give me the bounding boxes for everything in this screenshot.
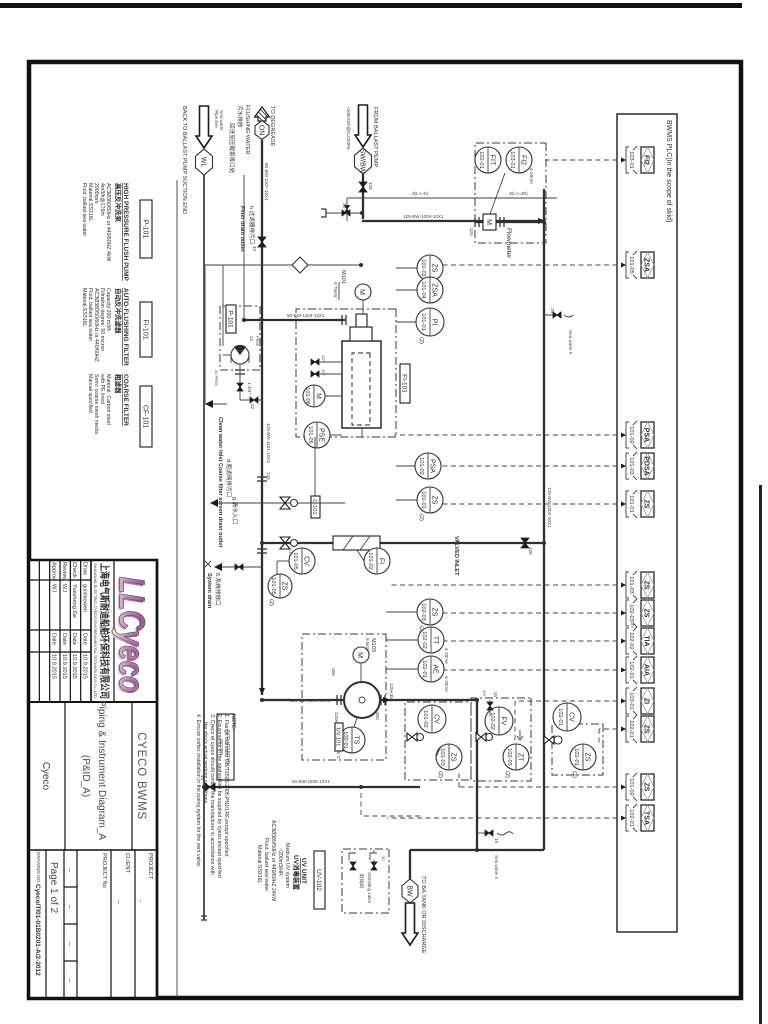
svg-text:g.清水入口: g.清水入口 xyxy=(231,497,239,524)
svg-text:(P&ID_A): (P&ID_A) xyxy=(80,755,91,797)
svg-text:–: – xyxy=(66,905,73,909)
svg-text:Material:SS316L: Material:SS316L xyxy=(256,845,262,883)
svg-text:25: 25 xyxy=(550,308,555,314)
svg-text:0.75kW: 0.75kW xyxy=(333,282,338,298)
instrument CV 101-02 xyxy=(418,705,446,733)
svg-text:M101: M101 xyxy=(340,270,346,284)
instrument ZS 102-03 xyxy=(417,599,443,625)
svg-text:CV: CV xyxy=(433,714,440,724)
tag P-101 xyxy=(226,305,236,333)
svg-text:102-01: 102-01 xyxy=(478,151,484,168)
svg-text:WJ: WJ xyxy=(61,584,67,592)
svg-text:Manual specified: Manual specified xyxy=(87,374,93,413)
instrument ZS 102-01 xyxy=(570,744,596,770)
svg-text:Check: Check xyxy=(71,562,77,578)
second header y=290 xyxy=(476,700,478,850)
valved inlet line x=543 xyxy=(262,542,544,544)
svg-text:102-01: 102-01 xyxy=(557,708,563,725)
svg-text:(2): (2) xyxy=(571,771,577,778)
svg-text:ZI: ZI xyxy=(643,698,650,704)
sample dashed L xyxy=(360,793,362,816)
hexagon WL xyxy=(196,149,213,175)
main discharge header y=223 xyxy=(543,189,545,850)
signal ZI 103-01 xyxy=(515,700,626,702)
svg-text:80-BW-1107-10X1: 80-BW-1107-10X1 xyxy=(264,163,269,201)
tag FI-101 xyxy=(400,364,410,403)
PLC point ZS 101-03 xyxy=(626,571,654,599)
valve 125 inlet xyxy=(359,182,367,192)
svg-text:10.9.2015: 10.9.2015 xyxy=(71,654,77,679)
scan edge artifact right xyxy=(759,485,762,1024)
pump discharge w/ check valve xyxy=(239,364,241,400)
svg-text:125: 125 xyxy=(469,228,474,236)
svg-text:BW: BW xyxy=(406,885,413,897)
svg-text:6.系统排放口: 6.系统排放口 xyxy=(214,573,222,606)
svg-text:(2): (2) xyxy=(268,599,274,606)
svg-text:ZS: ZS xyxy=(431,496,438,505)
signal FI2 xyxy=(545,159,626,161)
PLC point PDSA 101-03 xyxy=(626,452,654,480)
signal ZSA xyxy=(443,264,626,266)
svg-text:3(L>=30): 3(L>=30) xyxy=(509,191,528,196)
svg-text:101-01: 101-01 xyxy=(628,495,634,512)
svg-text:UV: UV xyxy=(630,622,635,629)
svg-text:–: – xyxy=(66,868,73,872)
svg-text:Date: Date xyxy=(71,633,77,645)
svg-text:101-04: 101-04 xyxy=(420,281,426,298)
flowmeter M box on riser xyxy=(475,221,544,223)
P-101 dash-dot box xyxy=(220,306,260,370)
svg-text:WJ: WJ xyxy=(51,584,57,592)
svg-text:Cyeco: Cyeco xyxy=(40,762,51,791)
signal PDSA xyxy=(441,465,626,467)
sampling valves xyxy=(371,862,377,870)
svg-text:101-02: 101-02 xyxy=(628,778,634,795)
svg-text:Date: Date xyxy=(82,633,88,645)
instrument PSA 101-02 xyxy=(415,453,441,479)
svg-text:22: 22 xyxy=(249,336,254,342)
svg-text:1/2": 1/2" xyxy=(321,355,326,363)
instrument ZSA 101-04 xyxy=(417,277,443,303)
svg-text:PROJECT: PROJECT xyxy=(147,853,153,880)
inline mixer xyxy=(333,536,380,550)
svg-text:Medium UV system: Medium UV system xyxy=(284,843,290,888)
svg-text:ZS: ZS xyxy=(643,783,650,792)
svg-text:PSE: PSE xyxy=(318,428,325,442)
sample line x=198 xyxy=(346,198,348,221)
flushing line arrow into riser xyxy=(259,688,265,695)
svg-text:40 PR05: 40 PR05 xyxy=(214,370,219,386)
PLC point TSA 102-01 xyxy=(626,804,654,832)
svg-text:TT: TT xyxy=(432,636,439,645)
svg-text:350: 350 xyxy=(375,712,380,720)
svg-text:Cyeco/TI01-01B0201-A/2-2012: Cyeco/TI01-01B0201-A/2-2012 xyxy=(34,884,41,976)
svg-text:FI2: FI2 xyxy=(520,155,527,165)
svg-text:102-02: 102-02 xyxy=(421,631,427,648)
scan edge artifact top xyxy=(0,3,742,8)
PLC point ZI 103-01 xyxy=(626,687,654,715)
svg-text:System drain: System drain xyxy=(206,573,212,609)
svg-text:101-06: 101-06 xyxy=(304,387,310,404)
svg-text:101-05: 101-05 xyxy=(307,426,313,443)
svg-text:PR05: PR05 xyxy=(255,336,260,347)
svg-text:3. Cyeco et cyeco should cons: 3. Cyeco et cyeco should consult the man… xyxy=(209,714,215,875)
svg-text:4-20mA: 4-20mA xyxy=(444,648,449,665)
svg-text:污水排放: 污水排放 xyxy=(236,105,244,128)
flushing water line y=505 xyxy=(261,140,263,695)
tag C-101 xyxy=(311,496,320,518)
svg-text:101-05: 101-05 xyxy=(292,552,298,569)
tag P-101 margin xyxy=(140,200,152,258)
instrument CV 102-01 xyxy=(553,703,581,731)
svg-text:CF-101: CF-101 xyxy=(142,405,149,428)
svg-text:103-01: 103-01 xyxy=(509,151,515,168)
svg-text:125-BW-1004-10X1: 125-BW-1004-10X1 xyxy=(547,487,552,528)
svg-text:HIGH PRESSURE FLUSH PUMP: HIGH PRESSURE FLUSH PUMP xyxy=(122,183,129,282)
svg-text:102-01: 102-01 xyxy=(628,809,634,826)
svg-text:ZSA: ZSA xyxy=(431,283,438,297)
svg-text:the ship's actual working cond: the ship's actual working conditions xyxy=(202,722,208,804)
svg-text:FI-101: FI-101 xyxy=(142,319,149,339)
svg-text:CV: CV xyxy=(568,712,575,722)
stub lines from instruments down xyxy=(396,321,416,323)
P-101 pump xyxy=(231,346,249,364)
PLC point ZS 101-01 xyxy=(626,490,654,518)
svg-text:PI: PI xyxy=(431,319,438,326)
svg-text:125: 125 xyxy=(528,547,533,555)
motor M101 xyxy=(355,284,371,300)
svg-text:1/2": 1/2" xyxy=(482,690,487,698)
svg-text:COARSE FILTER: COARSE FILTER xyxy=(122,374,129,426)
svg-text:Clean water inlet Coarse filte: Clean water inlet Coarse filter screen d… xyxy=(217,417,223,547)
svg-text:Sea water k: Sea water k xyxy=(568,330,573,355)
svg-text:PDSA: PDSA xyxy=(643,456,650,475)
CV 101-02 group dash-dot box xyxy=(405,702,471,780)
svg-text:40: 40 xyxy=(252,246,257,252)
svg-text:CLIENT: CLIENT xyxy=(124,853,130,873)
svg-text:ZS: ZS xyxy=(584,753,591,762)
svg-text:NOTE:: NOTE: xyxy=(230,714,236,730)
svg-text:5.5kW: 5.5kW xyxy=(365,638,370,652)
svg-text:FLUSHING WATER: FLUSHING WATER xyxy=(244,105,250,154)
vessel inlet from riser top xyxy=(361,428,363,437)
svg-text:CV: CV xyxy=(303,556,310,566)
svg-text:高压反冲洗泵: 高压反冲洗泵 xyxy=(114,183,123,223)
svg-text:P-101: P-101 xyxy=(142,220,149,239)
drain branch x=213 xyxy=(326,212,362,214)
svg-text:4-20mA: 4-20mA xyxy=(444,676,449,693)
svg-text:101-02: 101-02 xyxy=(367,552,373,569)
svg-text:Yuesheng.Ge: Yuesheng.Ge xyxy=(71,584,77,618)
svg-text:ZT: ZT xyxy=(517,753,524,762)
vent off header y=290 xyxy=(477,832,493,834)
svg-text:(2): (2) xyxy=(437,771,443,778)
filter vessel xyxy=(342,341,381,428)
filter skid dash-dot box xyxy=(296,309,396,437)
motor flush valve xyxy=(280,537,290,549)
svg-text:101-03: 101-03 xyxy=(628,576,634,593)
svg-text:3(L>=5): 3(L>=5) xyxy=(412,191,429,196)
pump discharge arrow xyxy=(383,697,390,703)
svg-text:AE: AE xyxy=(432,664,439,674)
instrument AE UV 102-01 xyxy=(418,656,444,682)
svg-text:SHANGHAI ELECTRIC CYECO ENVIRO: SHANGHAI ELECTRIC CYECO ENVIRONMENTAL TE… xyxy=(93,563,97,699)
svg-text:30: 30 xyxy=(381,856,386,861)
svg-text:d.粗滤网排污口: d.粗滤网排污口 xyxy=(225,459,233,497)
svg-text:C-101: C-101 xyxy=(311,499,317,514)
svg-text:102-01: 102-01 xyxy=(628,661,634,678)
svg-text:TS: TS xyxy=(353,736,360,745)
instrument ZS 101-05 xyxy=(268,574,292,598)
svg-text:ZSA: ZSA xyxy=(643,258,650,272)
svg-text:P-101: P-101 xyxy=(227,310,234,328)
svg-text:AIA: AIA xyxy=(643,664,650,676)
svg-text:50-BW-1104-10X1: 50-BW-1104-10X1 xyxy=(287,313,325,318)
signal ZS 102-01 xyxy=(599,728,626,730)
svg-text:125-BW-1004-10X1: 125-BW-1004-10X1 xyxy=(403,214,444,219)
svg-text:101-02: 101-02 xyxy=(628,426,634,443)
signal TSA xyxy=(387,817,626,819)
svg-text:103-01: 103-01 xyxy=(628,692,634,709)
svg-text:粗滤器: 粗滤器 xyxy=(114,374,123,394)
svg-text:TO BA.TANK OR DISCHARGE: TO BA.TANK OR DISCHARGE xyxy=(420,876,426,954)
PLC point ZS 102-03 xyxy=(626,599,654,627)
svg-text:ZS: ZS xyxy=(643,581,650,590)
svg-text:–: – xyxy=(66,979,73,983)
overboard discharge arrow xyxy=(402,903,418,945)
svg-text:125: 125 xyxy=(266,472,271,480)
svg-text:guixiaowen: guixiaowen xyxy=(82,584,88,612)
svg-text:FV: FV xyxy=(500,717,507,726)
svg-text:Piping & Instrument Diagram_A: Piping & Instrument Diagram_A xyxy=(96,700,107,840)
signal ZS 101-03 xyxy=(391,584,626,586)
signal PSA xyxy=(394,434,626,436)
svg-text:UV-102: UV-102 xyxy=(315,869,322,891)
signal AIA xyxy=(444,669,626,671)
svg-text:101-01: 101-01 xyxy=(420,313,426,330)
svg-text:101-03: 101-03 xyxy=(628,457,634,474)
instrument ZS 101-03 xyxy=(417,255,443,281)
svg-text:WL: WL xyxy=(200,157,207,168)
svg-text:Page 1 of 2: Page 1 of 2 xyxy=(48,862,59,914)
svg-text:FROM BALLAST PUMP: FROM BALLAST PUMP xyxy=(372,107,378,167)
hexagon ON xyxy=(255,121,269,140)
svg-text:4-20mA: 4-20mA xyxy=(529,168,534,185)
inlet pipe xyxy=(362,174,364,219)
svg-text:125-BW-1103-10X1: 125-BW-1103-10X1 xyxy=(290,698,331,703)
svg-text:AUTO-FLUSHING FILTER: AUTO-FLUSHING FILTER xyxy=(122,288,129,366)
svg-text:102-01: 102-01 xyxy=(628,720,634,737)
svg-text:FI-101: FI-101 xyxy=(401,374,408,393)
svg-text:CYECO BWMS: CYECO BWMS xyxy=(135,732,147,820)
signal ZS 101-02 xyxy=(459,786,626,788)
PLC point FI2 103-01 xyxy=(626,146,654,174)
WL line y=563 xyxy=(203,175,205,920)
instrument FI2 103-01 xyxy=(506,147,532,173)
svg-text:Sea water k: Sea water k xyxy=(494,855,499,880)
skid boundary line y=590 xyxy=(176,180,178,997)
FV 102-02 group dash-dot box xyxy=(471,698,531,781)
svg-text:Fluid: ballast sea water: Fluid: ballast sea water xyxy=(263,838,269,891)
svg-text:Date: Date xyxy=(61,633,67,645)
PLC strip box xyxy=(617,114,677,932)
svg-text:FI2: FI2 xyxy=(643,155,650,165)
svg-text:PROJECT No: PROJECT No xyxy=(101,853,107,888)
svg-text:103-01: 103-01 xyxy=(628,151,634,168)
svg-text:Fluid: ballast sea water: Fluid: ballast sea water xyxy=(81,183,87,236)
svg-text:FIT: FIT xyxy=(489,155,496,166)
svg-text:取样阀: 取样阀 xyxy=(358,874,365,888)
riser x=700 xyxy=(262,699,477,701)
svg-text:TO DEGREASE: TO DEGREASE xyxy=(269,106,275,147)
svg-text:M: M xyxy=(315,393,322,399)
instrument FIT 102-01 xyxy=(475,147,501,173)
svg-text:ZS: ZS xyxy=(431,608,438,617)
svg-text:PSA: PSA xyxy=(429,459,436,473)
svg-text:M: M xyxy=(356,652,363,658)
svg-text:UV消毒装置: UV消毒装置 xyxy=(292,855,301,891)
svg-text:ZS: ZS xyxy=(450,753,457,762)
svg-text:101-05: 101-05 xyxy=(628,256,634,273)
instrument ZS 101-01 xyxy=(417,487,443,513)
vent off header y=223 at x=315 xyxy=(544,314,561,316)
instrument PSE 101-05 xyxy=(304,422,330,448)
svg-text:(2): (2) xyxy=(418,337,424,344)
svg-text:FI: FI xyxy=(378,558,385,564)
svg-text:ZS: ZS xyxy=(431,264,438,273)
svg-text:Pipe line: Pipe line xyxy=(214,110,219,128)
signal ZS 102-03 xyxy=(443,612,626,614)
instrument TT 102-02 xyxy=(418,627,444,653)
instrument PI 101-01 xyxy=(416,308,444,336)
svg-text:32: 32 xyxy=(250,404,255,410)
signal TIA xyxy=(444,640,626,642)
vessel neck left xyxy=(350,327,372,341)
svg-text:(2): (2) xyxy=(418,514,424,521)
svg-text:125: 125 xyxy=(368,182,373,190)
svg-text:~200m3/h@0.22MPa: ~200m3/h@0.22MPa xyxy=(346,106,351,150)
svg-text:102-01: 102-01 xyxy=(421,660,427,677)
instrument ZT 102-03 xyxy=(503,744,529,770)
svg-text:h.过滤器排污口: h.过滤器排污口 xyxy=(248,206,256,244)
svg-text:1-1/4": 1-1/4" xyxy=(247,382,252,394)
PLC point ZS 101-02 xyxy=(626,773,654,801)
svg-text:M: M xyxy=(485,219,492,225)
svg-text:50-BW-1505-10X1: 50-BW-1505-10X1 xyxy=(292,779,330,784)
svg-text:BWMS PLC(In the scope of skid): BWMS PLC(In the scope of skid) xyxy=(665,120,672,222)
svg-text:102-03: 102-03 xyxy=(506,748,512,765)
svg-text:101-01: 101-01 xyxy=(420,491,426,508)
svg-text:~200m3/HR: ~200m3/HR xyxy=(277,848,283,876)
svg-text:UV-101: UV-101 xyxy=(335,728,341,747)
motor M103 xyxy=(353,647,369,663)
svg-text:101-05: 101-05 xyxy=(270,577,276,594)
branch valve 15 off riser xyxy=(489,700,491,716)
backflush line x=320 to WL xyxy=(244,319,345,321)
svg-text:(2): (2) xyxy=(504,771,510,778)
svg-text:TSA: TSA xyxy=(643,811,650,825)
svg-text:DRAWING NO.: DRAWING NO. xyxy=(36,852,41,883)
svg-text:102-03: 102-03 xyxy=(628,604,634,621)
svg-text:ZS: ZS xyxy=(281,582,288,591)
svg-text:PSA: PSA xyxy=(643,428,650,442)
svg-text:101-03: 101-03 xyxy=(439,748,445,765)
svg-text:上海电气斯耐迪船舶环保科技有限公司: 上海电气斯耐迪船舶环保科技有限公司 xyxy=(98,563,111,699)
svg-text:TIA: TIA xyxy=(643,635,650,646)
inlet riser x=222 xyxy=(362,220,545,222)
instrument FI 101-02 xyxy=(364,548,390,574)
drain line x=787 xyxy=(204,786,420,788)
signal ZS 101-01 xyxy=(443,503,626,505)
hexagon SW/BW xyxy=(355,148,372,174)
CV 102-01 group xyxy=(552,724,603,775)
svg-text:1. Flange standard GB/T2505-: 1. Flange standard GB/T2505-2005,PN10,RF… xyxy=(223,714,229,857)
PLC point ZSA 101-05 xyxy=(626,251,654,279)
svg-text:VALVED INLET: VALVED INLET xyxy=(453,536,459,576)
svg-text:Draw: Draw xyxy=(82,562,88,576)
vessel drain valves xyxy=(311,359,319,365)
svg-text:10.9.2015: 10.9.2015 xyxy=(51,654,57,679)
svg-text:ON: ON xyxy=(258,125,265,136)
coarse filter drain arrow xyxy=(205,264,223,266)
svg-text:Review: Review xyxy=(61,562,67,581)
svg-text:101-03: 101-03 xyxy=(420,259,426,276)
svg-text:ZS: ZS xyxy=(643,609,650,618)
svg-text:102-03: 102-03 xyxy=(420,603,426,620)
instrument FV 102-02 xyxy=(485,707,513,735)
svg-text:ZS: ZS xyxy=(643,500,650,509)
svg-text:Material:SS316L: Material:SS316L xyxy=(81,288,87,326)
svg-text:Approv: Approv xyxy=(51,562,57,580)
sampling dash-dot box xyxy=(342,849,389,913)
instrument M 101-06 xyxy=(303,385,325,407)
svg-text:Date: Date xyxy=(51,633,57,645)
svg-text:M: M xyxy=(358,289,365,295)
svg-text:355: 355 xyxy=(331,668,336,676)
suction line x=265 w/ strainer xyxy=(258,264,361,266)
clean water inlet line x=503 xyxy=(218,502,345,504)
title block xyxy=(29,560,157,998)
svg-text:回洗至压载泵吸口处: 回洗至压载泵吸口处 xyxy=(228,123,236,174)
svg-text:-: - xyxy=(137,900,144,902)
tag UV-102 xyxy=(314,851,325,909)
svg-text:–: – xyxy=(66,942,73,946)
PLC point TIA 102-02 xyxy=(626,627,654,655)
pump skid dash-dot box xyxy=(302,634,386,760)
svg-text:15: 15 xyxy=(493,692,498,698)
valve 40 on flushing line xyxy=(258,237,266,247)
hexagon BW overboard xyxy=(402,879,418,903)
tag FI-101 margin xyxy=(140,302,152,357)
svg-text:1/2": 1/2" xyxy=(321,369,326,377)
svg-text:UV UNIT: UV UNIT xyxy=(300,858,307,884)
svg-text:125-BW-1101-10X1: 125-BW-1101-10X1 xyxy=(266,423,271,464)
svg-text:4. Ensure vortex installation: 4. Ensure vortex installation in the pip… xyxy=(195,714,201,867)
PLC point AIA 102-01 xyxy=(626,656,654,684)
instrument ZS 101-03 valve xyxy=(436,744,462,770)
instrument TS 100-01 xyxy=(339,727,365,753)
svg-text:LLCyeco: LLCyeco xyxy=(112,577,153,693)
svg-text:125A350: 125A350 xyxy=(389,683,394,702)
svg-text:101-02: 101-02 xyxy=(418,457,424,474)
svg-text:101-02: 101-02 xyxy=(422,710,428,727)
flowmeter dash-dot box xyxy=(475,143,546,243)
svg-text:AC3Ø380/50Hz or 440/60HZ 24k: AC3Ø380/50Hz or 440/60HZ 24kW xyxy=(270,820,276,901)
svg-text:SW/BW: SW/BW xyxy=(359,149,366,174)
svg-text:ZS: ZS xyxy=(643,725,650,734)
PLC point PSA 101-02 xyxy=(626,421,654,449)
svg-text:10.9.2015: 10.9.2015 xyxy=(82,654,88,679)
